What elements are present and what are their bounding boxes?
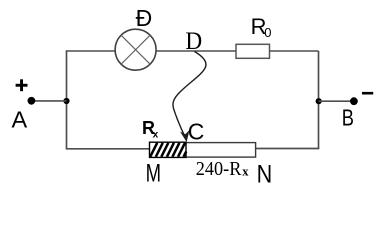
resistor R0 bbox=[236, 44, 270, 58]
wiper wire from D to C with arrow bbox=[173, 52, 206, 143]
rheostat track MN bbox=[150, 143, 256, 158]
svg-text:Đ: Đ bbox=[136, 5, 153, 31]
svg-text:0: 0 bbox=[264, 25, 271, 40]
wire left vertical (A junction branch) bbox=[66, 51, 68, 149]
label M bbox=[146, 160, 161, 188]
svg-text:M: M bbox=[146, 160, 161, 188]
svg-text:240-R: 240-R bbox=[196, 159, 242, 180]
wire bottom right segment bbox=[256, 148, 319, 150]
wire A stub bbox=[31, 100, 67, 102]
label Rx bbox=[142, 118, 159, 140]
wire right vertical bbox=[318, 51, 320, 149]
svg-text:D: D bbox=[185, 26, 202, 55]
wire top right segment bbox=[270, 50, 319, 52]
node A terminal bbox=[28, 97, 36, 105]
wire top left segment (to lamp) bbox=[66, 50, 115, 52]
plus polarity mark bbox=[16, 79, 28, 91]
node B terminal bbox=[350, 97, 358, 105]
svg-text:x: x bbox=[153, 129, 159, 140]
label B bbox=[342, 105, 354, 131]
svg-text:A: A bbox=[12, 106, 28, 132]
rheostat hatched section Rx (M to C) bbox=[150, 142, 187, 157]
svg-text:B: B bbox=[342, 105, 354, 131]
svg-text:C: C bbox=[188, 118, 205, 144]
wire bottom left segment bbox=[66, 148, 150, 150]
label R0 bbox=[251, 14, 272, 40]
label N bbox=[257, 160, 273, 188]
minus polarity mark bbox=[362, 92, 373, 95]
wire B stub bbox=[319, 100, 354, 102]
label Đ bbox=[136, 5, 153, 31]
label C bbox=[188, 118, 205, 144]
svg-text:N: N bbox=[257, 160, 273, 187]
junction dot at A branch bbox=[63, 98, 69, 104]
label D bbox=[185, 26, 202, 55]
label 240-Rx bbox=[196, 159, 249, 180]
wire top middle segment (lamp to R0) bbox=[157, 50, 236, 52]
svg-text:x: x bbox=[242, 165, 249, 179]
junction dot at B branch bbox=[316, 98, 322, 104]
label A bbox=[12, 106, 28, 132]
lamp Đ bbox=[115, 29, 156, 70]
